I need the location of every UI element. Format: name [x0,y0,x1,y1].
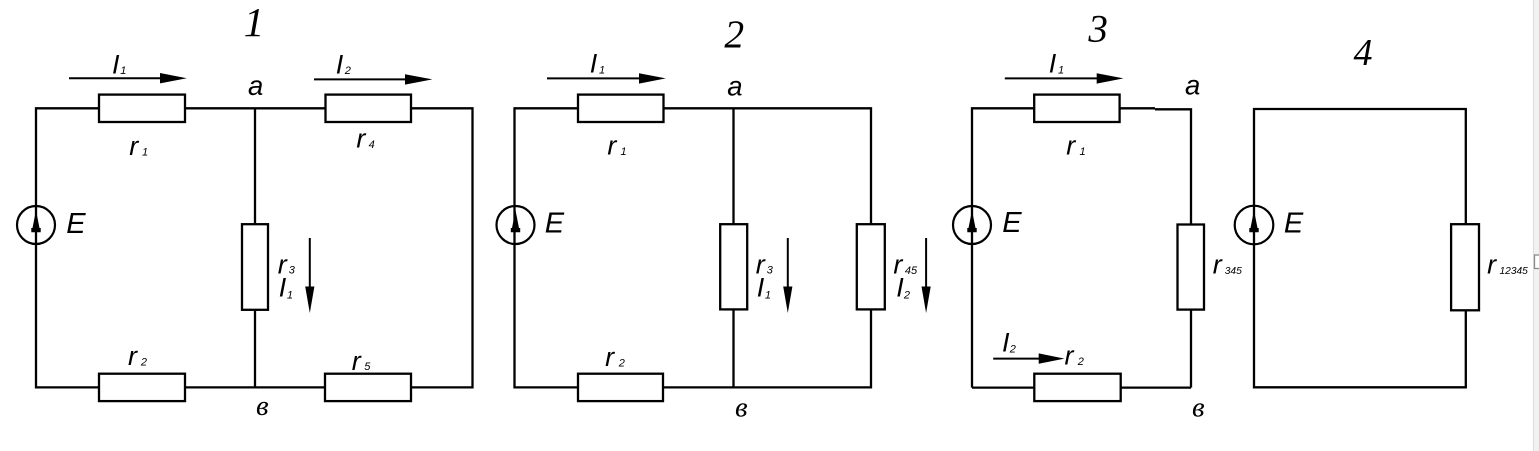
svg-text:1: 1 [287,289,293,301]
resistor r5 (circuit 1 box) [325,374,411,401]
svg-text:1: 1 [142,146,148,158]
svg-text:I: I [279,273,287,303]
EMF source E circuit 3 [953,206,991,244]
svg-text:1: 1 [244,0,264,45]
selection resize handle square [1535,255,1539,269]
svg-text:2: 2 [344,65,351,77]
svg-text:1: 1 [765,289,771,301]
svg-text:2: 2 [140,356,147,368]
svg-text:2: 2 [618,357,625,369]
svg-text:r: r [605,342,615,372]
svg-text:1: 1 [621,146,627,158]
resistor r3 (circuit 1 vertical box) [242,224,268,310]
svg-text:в: в [256,390,269,422]
svg-text:I: I [1002,328,1010,358]
resistor r12345 (circuit 4 vertical box) [1451,224,1479,310]
svg-text:E: E [545,208,565,240]
wire middle branch a-в circuit 1 [254,108,256,387]
svg-text:E: E [66,208,86,240]
svg-text:r: r [352,346,362,376]
svg-text:1: 1 [1058,64,1064,76]
svg-text:4: 4 [1354,32,1373,74]
wire outer loop circuit 2 [515,108,872,387]
svg-text:I: I [590,49,598,79]
wire middle branch a-в circuit 2 [732,108,734,387]
svg-text:2: 2 [903,289,910,301]
resistor r1 (circuit 2 box) [578,95,664,122]
svg-text:12345: 12345 [1500,266,1529,277]
svg-text:1: 1 [1080,146,1086,158]
current I1 arrow above r1 (circuit 3) [1005,77,1101,79]
svg-text:a: a [1185,70,1200,101]
current I2 arrow above r2 (circuit 3) [993,358,1043,360]
svg-text:1: 1 [120,65,126,77]
current I1 arrow above r1 (circuit 2) [547,77,644,79]
resistor r1 (circuit 1 box) [99,95,185,122]
svg-text:45: 45 [905,265,918,277]
current I2 direction arrow (down) circuit 2 [925,238,927,288]
current I1 direction arrow (down) circuit 2 [787,238,789,288]
svg-text:2: 2 [1009,343,1016,355]
resistor r2 (circuit 1 box) [99,374,185,401]
svg-text:3: 3 [1087,7,1108,50]
svg-text:r: r [128,341,138,371]
wire outer loop circuit 4 [1254,109,1466,387]
svg-text:4: 4 [369,139,375,151]
resistor r2 (circuit 3 box) [1034,374,1120,401]
resistor r345 (circuit 3 vertical box) [1178,225,1205,310]
resistor r45 (circuit 2 vertical box) [857,224,885,309]
svg-text:2: 2 [1077,356,1084,368]
current I2 arrow above r4 (circuit 1) [314,78,410,80]
svg-text:a: a [248,70,263,101]
resistor r4 (circuit 1 box) [326,95,412,122]
svg-text:r: r [1065,341,1075,371]
svg-text:2: 2 [724,12,744,56]
current I1 direction arrow (down) beside r3 [309,238,311,288]
svg-text:I: I [336,49,344,79]
svg-text:I: I [757,273,765,303]
EMF source E circuit 1 [17,206,55,244]
current I1 arrow above r1 (circuit 1) [69,77,165,79]
resistor r1 (circuit 3 box) [1034,95,1119,122]
resistor r2 (circuit 2 box) [578,374,663,401]
svg-text:E: E [1284,207,1304,239]
resistor r3 (circuit 2 vertical box) [720,224,747,309]
svg-text:I: I [112,49,120,79]
svg-text:в: в [1192,392,1205,424]
svg-text:r: r [1213,249,1223,279]
window edge gray strip (right) [1533,0,1539,451]
svg-text:r: r [607,131,617,161]
wire outer loop circuit 1 [36,108,473,387]
svg-text:в: в [735,392,748,424]
svg-text:5: 5 [364,361,371,373]
EMF source E circuit 2 [497,206,535,244]
svg-text:I: I [1049,49,1057,79]
svg-text:3: 3 [289,265,296,277]
svg-text:r: r [1487,249,1497,279]
svg-text:E: E [1002,207,1022,239]
svg-text:345: 345 [1225,266,1242,277]
EMF source E circuit 4 [1235,206,1274,245]
svg-text:3: 3 [767,265,774,277]
svg-text:a: a [727,71,742,102]
svg-text:r: r [129,131,139,161]
svg-text:r: r [1066,131,1076,161]
wire outer loop circuit 3 [972,108,1191,387]
svg-text:1: 1 [599,64,605,76]
svg-text:r: r [356,124,366,154]
